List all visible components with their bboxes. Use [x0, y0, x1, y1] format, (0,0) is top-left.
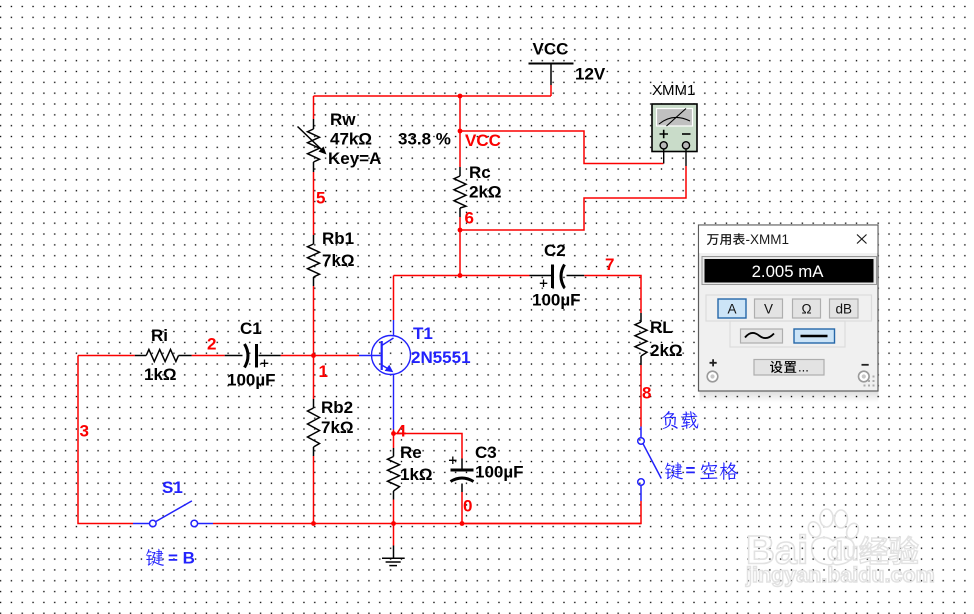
- svg-text:V: V: [764, 302, 773, 317]
- svg-text:2kΩ: 2kΩ: [469, 183, 502, 202]
- svg-text:47kΩ: 47kΩ: [330, 130, 372, 149]
- wire: emitter node 4 to Re and C3 branch: [394, 430, 463, 524]
- svg-text:Ri: Ri: [151, 326, 168, 345]
- resistor Rb2: [308, 399, 320, 456]
- svg-text:S1: S1: [162, 478, 183, 497]
- wire: left column x=313.5 segments between components: [313, 96, 315, 524]
- svg-text:dB: dB: [835, 302, 852, 317]
- dialog plus terminal jack: [707, 371, 718, 382]
- junction node (460,131): [458, 129, 463, 134]
- svg-text:100µF: 100µF: [475, 463, 524, 482]
- svg-text:1kΩ: 1kΩ: [144, 365, 177, 384]
- dialog button V: [755, 299, 783, 318]
- junction node (313.5,355.5): [311, 353, 316, 358]
- resistor Rc: [454, 167, 466, 217]
- potentiometer Rw: [298, 119, 323, 172]
- junction node (393.5,523.5): [391, 521, 396, 526]
- dialog display screen: [705, 259, 874, 283]
- svg-text:0: 0: [463, 497, 472, 516]
- wire: multimeter plus lead path: [460, 131, 664, 164]
- svg-text:C1: C1: [240, 319, 262, 338]
- svg-text:-XMM1: -XMM1: [746, 232, 790, 247]
- dialog minus terminal jack: [859, 371, 870, 382]
- svg-text:C2: C2: [544, 241, 566, 260]
- wire: top VCC rail y=96 from Rw column to VCC stem: [314, 95, 552, 97]
- svg-text:jingyan.baidu.com: jingyan.baidu.com: [745, 563, 935, 587]
- svg-text:2.005 mA: 2.005 mA: [752, 262, 825, 281]
- resistor Re: [388, 448, 400, 500]
- dialog button DC selected: [794, 329, 835, 343]
- junction node (393.5,433.5): [391, 431, 396, 436]
- wire: multimeter minus lead path: [460, 166, 686, 230]
- svg-text:Re: Re: [400, 443, 422, 462]
- wire: VCC supply column x=460: [460, 85, 551, 276]
- dialog button sine: [741, 329, 783, 343]
- svg-text:T1: T1: [413, 324, 433, 343]
- svg-text:Rb1: Rb1: [322, 229, 354, 248]
- svg-text:Ω: Ω: [801, 302, 811, 317]
- S1 key label: kai 键 = B: [146, 549, 164, 566]
- svg-text:=: =: [686, 461, 696, 480]
- svg-text:100µF: 100µF: [532, 291, 581, 310]
- dialog title text 万用表-XMM1: [707, 233, 745, 245]
- baidu watermark paw: [806, 509, 860, 565]
- svg-text:1kΩ: 1kΩ: [400, 465, 433, 484]
- svg-text:12V: 12V: [575, 65, 606, 84]
- VCC power symbol: [529, 64, 574, 86]
- svg-text:5: 5: [316, 189, 325, 208]
- switch S2 load: [638, 427, 662, 502]
- svg-text:XMM1: XMM1: [652, 82, 695, 99]
- multimeter XMM1 icon: [652, 104, 697, 166]
- resistor Ri: [135, 350, 192, 362]
- svg-text:8: 8: [642, 384, 651, 403]
- svg-text:C3: C3: [475, 443, 497, 462]
- svg-text:du: du: [827, 536, 859, 566]
- ground: [382, 546, 405, 566]
- svg-text:3: 3: [80, 422, 89, 441]
- load label: kai 负载: [662, 411, 698, 429]
- dialog groupbox mode: [706, 295, 872, 321]
- svg-text:= B: = B: [168, 549, 195, 568]
- dialog button A selected: [718, 299, 746, 318]
- junction node (462,523.5): [460, 521, 465, 526]
- S2 key label: kai 键 = 空格: [665, 462, 738, 480]
- baidu watermark jingyan 经验: [860, 536, 919, 564]
- svg-text:...: ...: [798, 360, 809, 375]
- svg-text:33.8 %: 33.8 %: [398, 130, 451, 149]
- svg-text:2: 2: [207, 335, 216, 354]
- wire: input loop x=78 and Ri row y=355.5: [78, 356, 641, 546]
- svg-text:Rc: Rc: [469, 163, 491, 182]
- svg-text:Rb2: Rb2: [321, 398, 353, 417]
- junction node (460,230): [458, 228, 463, 233]
- dialog settings button 设置...: [754, 360, 824, 376]
- dialog groupbox wave: [730, 321, 845, 347]
- resistor RL: [635, 313, 647, 365]
- capacitor C1: [225, 344, 281, 368]
- switch S1: [133, 501, 213, 527]
- resistor Rb1: [308, 235, 320, 286]
- svg-text:7kΩ: 7kΩ: [322, 251, 355, 270]
- svg-text:2kΩ: 2kΩ: [650, 341, 683, 360]
- svg-text:1: 1: [319, 362, 328, 381]
- svg-text:VCC: VCC: [533, 40, 569, 59]
- dialog plus terminal label: [710, 359, 717, 366]
- svg-text:Rw: Rw: [330, 110, 356, 129]
- dialog resize grip: [864, 376, 875, 387]
- dialog close button: [857, 235, 867, 244]
- dialog minus terminal label: [862, 364, 869, 366]
- svg-text:100µF: 100µF: [227, 371, 276, 390]
- svg-text:A: A: [727, 302, 736, 317]
- dialog drop shadow: [0, 0, 1, 1]
- dialog button Ohm: [793, 299, 821, 318]
- svg-text:2N5551: 2N5551: [411, 348, 471, 367]
- dialog display bezel: [702, 257, 877, 285]
- capacitor C2: [530, 265, 585, 289]
- svg-text:4: 4: [397, 422, 407, 441]
- wire: node 7 rail y=275.5 with C2 inline and RL column x=641: [394, 276, 642, 524]
- junction node (460,275.5): [458, 273, 463, 278]
- dialog window 万用表-XMM1: [699, 225, 879, 391]
- dialog button dB: [830, 299, 859, 318]
- wire: collector riser x=393.5: [393, 276, 395, 321]
- svg-text:VCC: VCC: [465, 131, 501, 150]
- svg-text:7kΩ: 7kΩ: [321, 418, 354, 437]
- svg-text:RL: RL: [650, 318, 673, 337]
- svg-text:7: 7: [605, 255, 614, 274]
- junction node (313.5,523.5): [311, 521, 316, 526]
- capacitor C3: [449, 457, 474, 493]
- svg-text:Key=A: Key=A: [328, 149, 381, 168]
- junction node (460,96): [458, 94, 463, 99]
- svg-text:6: 6: [465, 209, 474, 228]
- transistor Q T1 2N5551: [359, 320, 411, 430]
